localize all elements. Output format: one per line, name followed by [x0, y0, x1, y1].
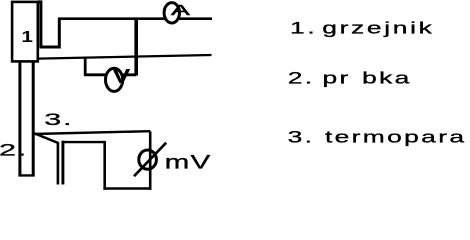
wire: voltmeter branch vertical from second wire — [84, 58, 87, 76]
svg-text:2.: 2. — [0, 142, 28, 160]
heater box 1 — [12, 2, 38, 62]
voltmeter U2 circle — [106, 68, 123, 91]
wire: tall vertical joining top wire to voltmeter branch — [134, 18, 138, 76]
wire: top wire to ammeter and right end — [58, 17, 212, 20]
millivoltmeter circle — [139, 150, 157, 169]
thermocouple weld diagonal — [34, 133, 59, 143]
wire: voltmeter branch horizontal — [84, 73, 136, 76]
wire: mV loop bottom — [103, 187, 151, 190]
wire: mV loop left vertical — [103, 141, 106, 190]
svg-text:mV: mV — [165, 152, 212, 173]
sample U bottom — [18, 174, 34, 176]
svg-text:3. termopara: 3. termopara — [288, 127, 467, 146]
wire: main bottom wire to mV meter — [33, 131, 150, 134]
millivoltmeter slash — [134, 143, 166, 177]
sample U leg right — [32, 61, 35, 176]
ammeter U1 circle — [164, 3, 179, 23]
thermocouple wire 2 top cap — [62, 141, 105, 143]
thermocouple wire 2 vertical — [61, 141, 64, 185]
wire: mV loop right vertical through meter — [149, 132, 152, 190]
svg-text:1: 1 — [21, 27, 33, 45]
svg-text:3.: 3. — [44, 111, 73, 129]
wire: second (sample) wire from box to right — [38, 55, 212, 59]
sample U leg left — [18, 61, 21, 176]
thermocouple wire 1 vertical — [57, 142, 60, 185]
svg-text:A: A — [171, 1, 191, 18]
svg-text:1. grzejnik: 1. grzejnik — [290, 18, 435, 37]
svg-text:V: V — [112, 65, 130, 88]
wire: box top-right zigzag down — [38, 2, 60, 47]
svg-text:2. pr bka: 2. pr bka — [288, 68, 412, 87]
